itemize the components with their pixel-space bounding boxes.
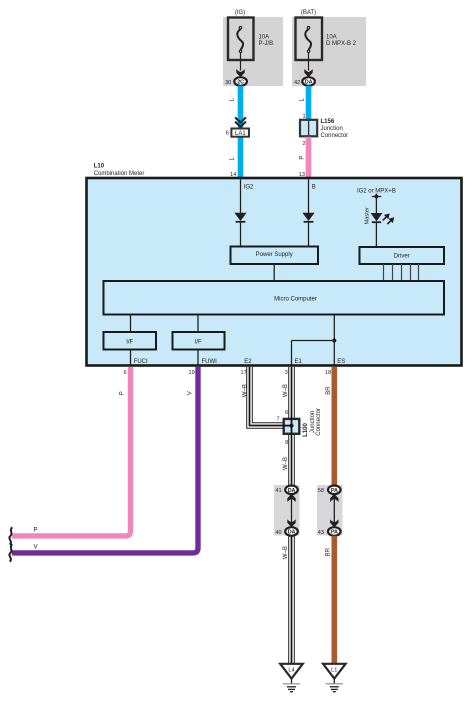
wire color label BR (below 43) xyxy=(326,547,332,556)
arrow into connector 2C xyxy=(236,69,244,77)
svg-text:DA: DA xyxy=(305,80,313,86)
wire diode D1 to Power Supply xyxy=(240,222,242,247)
pin label FUWI xyxy=(202,359,218,365)
component L10 Combination Meter box xyxy=(87,178,462,366)
svg-text:DA: DA xyxy=(288,488,296,494)
svg-text:FUCI: FUCI xyxy=(134,359,148,365)
svg-text:E1: E1 xyxy=(295,359,303,365)
svg-text:19: 19 xyxy=(188,370,194,376)
wire W-B connector 40 to ground L4 xyxy=(289,536,295,664)
svg-text:Micro Computer: Micro Computer xyxy=(274,297,317,303)
wire Micro Computer to node, down to ES xyxy=(333,315,335,366)
svg-text:10A: 10A xyxy=(259,34,270,40)
svg-text:10A: 10A xyxy=(326,34,337,40)
wire I/F 2 to pin FUWI xyxy=(197,350,199,366)
wire BR from ES to connector 58 PA xyxy=(331,367,337,486)
connector oval 30 (2C) xyxy=(225,77,247,86)
svg-text:P: P xyxy=(34,528,38,534)
svg-text:42: 42 xyxy=(294,80,300,86)
wire BR connector 43 to ground L1 xyxy=(331,536,337,664)
svg-text:7: 7 xyxy=(276,416,279,422)
svg-text:W–B: W–B xyxy=(283,546,289,559)
svg-text:17: 17 xyxy=(240,370,246,376)
pin 18 number xyxy=(325,370,331,376)
junction node dot xyxy=(332,338,336,342)
block Micro Computer xyxy=(104,281,445,315)
block Driver xyxy=(360,247,445,264)
pin label FUCI xyxy=(134,359,148,365)
svg-text:Connector: Connector xyxy=(316,408,322,436)
pin 19 number xyxy=(188,370,194,376)
wire Micro Computer to I/F 2 xyxy=(197,315,199,333)
fuse block shading (IG) xyxy=(223,17,283,86)
svg-text:P-J/B: P-J/B xyxy=(259,41,274,47)
svg-text:L1: L1 xyxy=(331,668,337,674)
wire fuse F2 to connector DA xyxy=(308,52,310,70)
wire between connectors 58-43 xyxy=(333,494,335,528)
wire color label L xyxy=(230,97,236,101)
wire color label W-B (E2) xyxy=(243,384,249,397)
fuse F1 10A P-J/B xyxy=(228,18,273,61)
wire node to LED xyxy=(375,194,377,214)
svg-text:43: 43 xyxy=(318,530,324,536)
svg-text:W–B: W–B xyxy=(243,384,249,397)
svg-text:L156: L156 xyxy=(321,119,335,125)
junction connector LA1 double chevron xyxy=(235,117,246,126)
pin 14 number xyxy=(230,172,236,178)
svg-text:Junction: Junction xyxy=(321,126,343,132)
node IG2 or MPX+B xyxy=(357,188,396,198)
LED D3 (Master indicator) xyxy=(371,213,395,224)
svg-text:41: 41 xyxy=(275,488,281,494)
arrow into connector DA xyxy=(304,69,312,77)
svg-text:6: 6 xyxy=(226,131,229,137)
off-page squiggle pink xyxy=(9,527,12,544)
pin 13 number xyxy=(299,172,305,178)
svg-text:I/F: I/F xyxy=(195,339,202,345)
wire P (pink) FUCI to left edge xyxy=(12,367,131,536)
fuse F2 10A D MPX-B 2 xyxy=(296,18,357,61)
svg-text:Master: Master xyxy=(365,207,371,224)
pin 6 number xyxy=(123,370,126,376)
arrow up into connector 58 xyxy=(330,494,338,502)
svg-text:6: 6 xyxy=(123,370,126,376)
svg-text:2C: 2C xyxy=(237,80,244,86)
connector oval 58 (PA) xyxy=(318,486,341,495)
wire color label W-B (below 40) xyxy=(283,546,289,559)
svg-text:2: 2 xyxy=(302,141,305,147)
ground L4 xyxy=(280,664,303,692)
wire L (blue) DA to L156 pin 1 xyxy=(306,86,312,120)
connector oval 42 (DA) xyxy=(294,77,315,86)
junction connector LA1 box pin 6 xyxy=(226,129,249,138)
svg-text:40: 40 xyxy=(275,530,281,536)
wire W-B L100 to connector 41 DA xyxy=(289,435,295,486)
svg-text:8: 8 xyxy=(285,440,288,446)
svg-text:BR: BR xyxy=(326,386,332,395)
pin 2 of L156 xyxy=(302,141,305,147)
wire IG2 to diode D1 xyxy=(240,179,242,213)
diode D2 xyxy=(302,213,314,222)
connector oval 40 (DA) xyxy=(275,527,297,536)
svg-text:18: 18 xyxy=(325,370,331,376)
wires Driver to Micro Computer (5 lines) xyxy=(384,264,419,281)
pin 8 of L100 xyxy=(285,440,288,446)
svg-text:L10: L10 xyxy=(94,164,105,170)
block I/F 1 xyxy=(104,332,157,350)
arrow up into connector 41 xyxy=(287,494,295,502)
diode D1 xyxy=(234,213,246,222)
svg-text:IG2: IG2 xyxy=(244,185,254,191)
component L10 Combination Meter label xyxy=(94,164,145,177)
svg-text:L4: L4 xyxy=(288,668,294,674)
wire L (blue) 2C to pin 14 xyxy=(238,86,244,178)
svg-text:30: 30 xyxy=(225,80,231,86)
connector pair shading (PA) xyxy=(317,485,343,536)
connector pair shading (DA) xyxy=(274,485,300,536)
wire P (pink) L156 to pin 13 xyxy=(306,137,312,178)
wire W-B from E2 to L100 pin 7 xyxy=(247,367,283,428)
pin label IG2 xyxy=(244,185,254,191)
wire between connectors 41-40 xyxy=(291,494,293,528)
wire color label L (below LA1) xyxy=(230,156,236,160)
svg-text:Driver: Driver xyxy=(394,254,410,260)
block Power Supply xyxy=(231,247,319,265)
svg-text:PA: PA xyxy=(331,530,338,536)
svg-text:3: 3 xyxy=(285,370,288,376)
pin label B xyxy=(312,185,316,191)
svg-text:PA: PA xyxy=(331,488,338,494)
wire fuse F1 to connector 2C xyxy=(240,52,242,70)
connector oval 43 (PA) xyxy=(318,527,341,536)
svg-text:Combination Meter: Combination Meter xyxy=(94,171,145,177)
pin label E2 xyxy=(244,359,252,365)
label L100 (vertical bold) xyxy=(303,423,309,437)
wire color label P (vertical) xyxy=(119,391,125,395)
block I/F 2 xyxy=(173,332,225,350)
pin 7 of L100 xyxy=(276,416,279,422)
arrow down into connector 43 xyxy=(330,519,338,527)
svg-text:(BAT): (BAT) xyxy=(301,10,316,16)
svg-text:W–B: W–B xyxy=(283,384,289,397)
svg-text:FUWI: FUWI xyxy=(202,359,218,365)
pin 6 of L100 xyxy=(285,410,288,416)
label Junction Connector (vertical) xyxy=(310,408,322,436)
junction connector L156 xyxy=(300,119,348,139)
wire LED to Driver xyxy=(375,222,377,247)
pin 17 number xyxy=(240,370,246,376)
svg-text:I/F: I/F xyxy=(126,339,133,345)
svg-text:L100: L100 xyxy=(303,423,309,437)
svg-text:6: 6 xyxy=(285,410,288,416)
fuse block shading (BAT) xyxy=(292,17,366,86)
wire diode D2 to Power Supply xyxy=(308,222,310,247)
label Master (vertical) xyxy=(365,207,371,224)
ground L1 xyxy=(323,664,346,692)
label (BAT) xyxy=(301,10,316,16)
connector oval 41 (DA) xyxy=(275,486,297,495)
svg-text:V: V xyxy=(34,545,38,551)
svg-text:V: V xyxy=(188,391,194,395)
wire I/F 1 to pin FUCI xyxy=(130,350,132,366)
svg-text:D MPX-B 2: D MPX-B 2 xyxy=(326,41,357,47)
wire Micro Computer to I/F 1 xyxy=(130,315,132,333)
wire label V (horizontal run) xyxy=(34,545,38,551)
svg-text:E2: E2 xyxy=(244,359,252,365)
pin label ES xyxy=(337,359,345,365)
label (IG) xyxy=(235,10,245,16)
wire color label L xyxy=(299,97,305,101)
wire B to diode D2 xyxy=(308,179,310,213)
wire V (violet) FUWI to left edge xyxy=(12,367,198,553)
svg-text:B: B xyxy=(312,185,316,191)
svg-text:Power Supply: Power Supply xyxy=(256,252,293,258)
svg-text:(IG): (IG) xyxy=(235,10,245,16)
svg-text:LA1: LA1 xyxy=(235,131,246,137)
pin 1 of L156 xyxy=(302,113,305,119)
wire node to E1 branch xyxy=(292,341,335,366)
svg-text:P: P xyxy=(119,391,125,395)
svg-text:BR: BR xyxy=(326,547,332,556)
wire color label P xyxy=(299,156,305,160)
arrow down into connector 40 xyxy=(287,519,295,527)
wire color label W-B (E1) xyxy=(283,384,289,397)
wire color label W-B (above 41) xyxy=(283,457,289,470)
svg-text:DA: DA xyxy=(288,530,296,536)
label BR (vertical, below ES) xyxy=(326,386,332,395)
svg-text:P: P xyxy=(299,156,305,160)
pin 3 number xyxy=(285,370,288,376)
svg-text:Connector: Connector xyxy=(321,133,349,139)
wire Power Supply to Micro Computer xyxy=(273,264,275,281)
pin label E1 xyxy=(295,359,303,365)
svg-text:1: 1 xyxy=(302,113,305,119)
wire W-B from E1 to L100 xyxy=(289,367,295,418)
wire label P (horizontal run) xyxy=(34,528,38,534)
svg-text:58: 58 xyxy=(318,488,324,494)
svg-text:Junction: Junction xyxy=(310,411,316,433)
wire color label V (vertical) xyxy=(188,391,194,395)
svg-text:W–B: W–B xyxy=(283,457,289,470)
off-page squiggle violet xyxy=(9,544,12,561)
svg-text:ES: ES xyxy=(337,359,345,365)
junction connector L100 xyxy=(283,418,300,435)
